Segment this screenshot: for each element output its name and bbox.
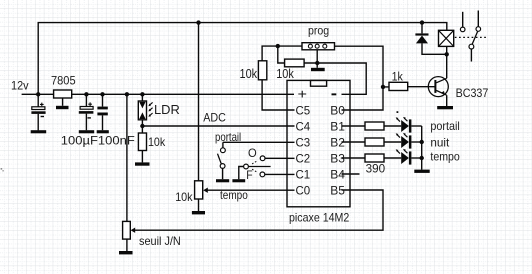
stray speck near LED arrows [397, 111, 399, 113]
stray speck at left edge [1, 168, 3, 169]
LED D2 portail [396, 117, 422, 133]
wire prog pin2 to ground [316, 50, 318, 68]
node rail/seuil pot [125, 92, 129, 96]
IC U1 picaxe 14M2 [287, 80, 350, 206]
node LED bus B2 [420, 140, 424, 144]
node relay/diode/collector [445, 52, 449, 56]
svg-text:C3: C3 [296, 135, 311, 149]
node rail/LDR [140, 92, 144, 96]
potentiometer tempo 10k [195, 181, 208, 211]
ground below 7805 [56, 106, 69, 109]
node ADC divider [140, 124, 144, 128]
LED D4 tempo [396, 149, 422, 165]
pin stub B4 [342, 173, 360, 175]
resistor R3 10k serial horizontal [285, 59, 305, 67]
svg-text:C1: C1 [296, 167, 311, 181]
wire R3 left to prog pin1 wire [278, 46, 285, 63]
svg-text:C4: C4 [296, 119, 311, 133]
ground below portail switch [216, 179, 229, 182]
svg-text:390: 390 [366, 161, 386, 175]
svg-text:O: O [248, 146, 257, 160]
diode D1 flyback [415, 23, 446, 55]
node prog gnd/R3 [315, 61, 319, 65]
svg-text:ADC: ADC [203, 111, 226, 125]
svg-text:C2: C2 [296, 151, 311, 165]
svg-text:10k: 10k [175, 190, 193, 204]
wire R2 bottom to C5 [262, 80, 294, 110]
node serial-out/1k [381, 85, 385, 89]
ground below O/F switch [232, 179, 245, 182]
svg-text:portail: portail [430, 119, 459, 133]
svg-text:C5: C5 [296, 103, 311, 117]
node top rail/tempo branch [196, 20, 200, 24]
svg-text:prog: prog [308, 23, 329, 37]
svg-text:tempo: tempo [430, 149, 460, 163]
svg-text:C0: C0 [296, 183, 311, 197]
node rail/cap2 [84, 92, 88, 96]
relay actuation dotted line [455, 36, 486, 38]
ground below tempo pot [192, 211, 205, 214]
transistor Q1 BC337 [428, 54, 448, 106]
wire top 12V rail [38, 23, 447, 95]
ground below seuil pot [119, 251, 133, 254]
svg-text:7805: 7805 [51, 74, 76, 88]
wire F contact to C1 [265, 173, 295, 175]
svg-text:B0: B0 [330, 103, 345, 117]
svg-text:B5: B5 [330, 183, 345, 197]
capacitor C1 electrolytic at 12v input [31, 94, 45, 130]
wire main 5V rail [22, 93, 294, 95]
svg-text:picaxe 14M2: picaxe 14M2 [289, 210, 350, 224]
svg-text:LDR: LDR [154, 102, 180, 117]
wire seuil wiper to B5 [135, 190, 384, 230]
resistor R7 390 on B3 [342, 154, 402, 162]
wire portail switch to C3 [223, 141, 295, 143]
wire R3 right to V- pin [304, 63, 366, 94]
svg-text:+: + [298, 87, 308, 102]
relay K1 coil [439, 30, 454, 54]
resistor R4 1k [383, 71, 435, 90]
svg-text:1k: 1k [392, 71, 404, 83]
ground below LED bus [414, 170, 429, 173]
node top rail/diode [420, 20, 424, 24]
potentiometer seuil J/N [123, 94, 136, 251]
svg-text:10k: 10k [276, 67, 294, 81]
wire vertical to tempo pot [198, 23, 200, 181]
wire LED cathode bus [421, 126, 423, 170]
ground below R1 [135, 162, 150, 165]
node rail/cap1 [36, 92, 40, 96]
svg-text:12v: 12v [11, 79, 29, 93]
wire O contact to C2 [265, 157, 295, 159]
ground below prog [311, 68, 325, 71]
label - pin [332, 93, 337, 95]
svg-text:nuit: nuit [430, 136, 450, 150]
ground below BC337 emitter [437, 106, 453, 109]
regulator U2 7805 [51, 74, 76, 106]
svg-text:F: F [246, 168, 252, 182]
LED D3 nuit [396, 133, 422, 149]
wire prog pin3 to B0 [335, 46, 384, 110]
LDR light arrows [148, 102, 152, 116]
node LED bus B3 [420, 156, 424, 160]
capacitor C2 100uF electrolytic [79, 94, 94, 130]
resistor R1 10k below LDR [138, 133, 166, 162]
wire ADC node to C4 [142, 125, 294, 127]
svg-text:BC337: BC337 [456, 86, 489, 100]
photoresistor LDR [138, 94, 146, 133]
switch portail [218, 142, 226, 179]
resistor R6 390 on B2 [342, 138, 402, 146]
capacitor C3 100nF [97, 94, 107, 130]
resistor R2 10k serial-in vertical [258, 61, 266, 80]
svg-text:seuil J/N: seuil J/N [139, 234, 181, 248]
wire tempo wiper to C0 [207, 189, 295, 191]
ground below C1 [31, 130, 47, 133]
ground below C3 [97, 130, 109, 133]
ground below C2 [79, 130, 94, 133]
relay switch contacts [460, 11, 480, 62]
connector prog [302, 43, 335, 50]
resistor R5 390 on B1 [342, 122, 402, 130]
junction node dots [36, 20, 449, 160]
node rail/cap3 [100, 92, 104, 96]
node prog pin1/R3 [276, 44, 280, 48]
switch O/F selector [239, 156, 271, 179]
svg-text:10k: 10k [240, 67, 258, 81]
svg-text:10k: 10k [148, 135, 166, 149]
wire prog pin1 to serial resistor [262, 46, 302, 61]
svg-text:100µF100nF: 100µF100nF [61, 135, 135, 148]
